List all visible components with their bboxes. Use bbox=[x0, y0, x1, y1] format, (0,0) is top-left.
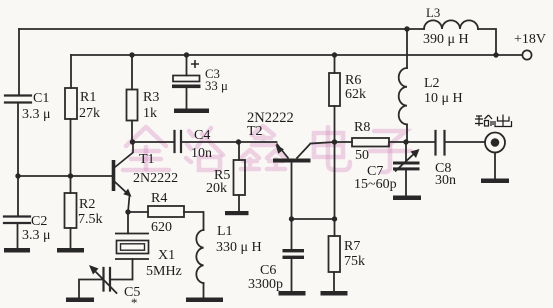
svg-text:330 μ H: 330 μ H bbox=[216, 240, 262, 255]
svg-text:390 μ H: 390 μ H bbox=[423, 32, 469, 47]
resistor R7 bbox=[329, 236, 341, 272]
node dot top rail / L2 bbox=[404, 26, 409, 31]
svg-text:C1: C1 bbox=[33, 91, 49, 106]
svg-text:R1: R1 bbox=[80, 90, 96, 105]
node dot R1/R2/base bbox=[68, 173, 73, 178]
svg-text:T2: T2 bbox=[247, 124, 263, 139]
capacitor C2 bbox=[4, 217, 30, 224]
ground (R2) bbox=[57, 248, 84, 253]
resistor R8 bbox=[352, 138, 389, 147]
resistor R1 bbox=[65, 88, 77, 119]
wire node A down to base node bbox=[334, 142, 336, 219]
wire R1 stems bbox=[70, 55, 73, 176]
node dot +18V / L3 bbox=[493, 52, 498, 57]
transistor T2 bbox=[273, 144, 311, 161]
wire connector ground stem bbox=[494, 153, 496, 179]
wire left column C1 branch bbox=[18, 29, 19, 176]
wire base node row bbox=[292, 218, 335, 220]
svg-text:R2: R2 bbox=[79, 197, 95, 212]
wire L3 right end down to +18V node bbox=[478, 29, 496, 55]
svg-text:1k: 1k bbox=[143, 106, 157, 121]
output connector bbox=[485, 133, 505, 153]
svg-text:30n: 30n bbox=[435, 173, 456, 188]
svg-text:62k: 62k bbox=[345, 87, 366, 102]
resistor R5 bbox=[234, 160, 246, 195]
svg-text:C4: C4 bbox=[194, 128, 210, 143]
wire R3 stems bbox=[131, 55, 133, 142]
node dot T2 base / C6 bbox=[289, 216, 294, 221]
node dot T1 emitter / R4 / X1 bbox=[125, 209, 130, 214]
svg-text:R3: R3 bbox=[143, 90, 159, 105]
resistor R4 bbox=[148, 206, 184, 217]
wire C6 stems bbox=[291, 219, 293, 291]
inductor L2 bbox=[399, 68, 407, 124]
wire R8 to output node bbox=[389, 141, 406, 143]
svg-text:620: 620 bbox=[151, 220, 172, 235]
node dot R7 top bbox=[332, 216, 337, 221]
svg-text:*: * bbox=[131, 296, 137, 308]
wire +18V supply rail bbox=[71, 54, 522, 56]
svg-text:L3: L3 bbox=[426, 6, 440, 20]
wire T2 emitter feed bbox=[239, 141, 277, 143]
ground (C3) bbox=[174, 109, 209, 114]
wire L1 bottom stem bbox=[203, 283, 205, 298]
wire T2 base stem bbox=[291, 162, 293, 220]
svg-text:R6: R6 bbox=[345, 73, 361, 88]
resistor R6 bbox=[329, 73, 340, 106]
svg-text:2N2222: 2N2222 bbox=[133, 171, 178, 186]
svg-text:3300p: 3300p bbox=[248, 277, 283, 292]
wire L2 hang from top rail bbox=[406, 29, 408, 142]
resistor R2 bbox=[65, 193, 77, 228]
wire base line to T1 bbox=[18, 175, 112, 177]
node dot C1/C2/base bbox=[15, 173, 20, 178]
wire R6 stems bbox=[334, 55, 336, 142]
svg-text:+18V: +18V bbox=[514, 32, 546, 47]
svg-text:20k: 20k bbox=[206, 181, 227, 196]
inductor L3 bbox=[424, 20, 478, 29]
wire output node to C8 bbox=[406, 141, 435, 143]
watermark 金洛鑫电子 (pink, hand-drawn strokes) bbox=[123, 126, 411, 172]
svg-text:10n: 10n bbox=[191, 146, 212, 161]
capacitor C5 (variable) bbox=[104, 268, 111, 291]
node dot C3 top bbox=[184, 52, 189, 57]
ground (R7) bbox=[321, 291, 348, 296]
svg-text:3.3 μ: 3.3 μ bbox=[22, 107, 51, 122]
wire collector node to C4 bbox=[133, 141, 175, 143]
wire C8 to connector bbox=[445, 141, 485, 143]
ground (C2) bbox=[4, 248, 30, 253]
svg-text:75k: 75k bbox=[344, 254, 365, 269]
svg-text:C6: C6 bbox=[260, 263, 276, 278]
wire C3 stems bbox=[186, 55, 188, 109]
svg-text:3.3 μ: 3.3 μ bbox=[22, 228, 51, 243]
capacitor C1 bbox=[5, 96, 31, 103]
capacitor C6 bbox=[283, 249, 305, 252]
wire T2 collector to R8 bbox=[311, 142, 353, 144]
label 输出 (output, hand-drawn glyphs) bbox=[475, 115, 512, 127]
node dot C4/R5/T2 emitter bbox=[236, 139, 241, 144]
wire C7 stems bbox=[405, 142, 407, 196]
ground (C6) bbox=[279, 291, 306, 296]
svg-text:5MHz: 5MHz bbox=[146, 264, 182, 279]
svg-text:L2: L2 bbox=[424, 76, 440, 91]
resistor R3 bbox=[127, 90, 138, 121]
node dot output (L2/R8/C7/C8) bbox=[403, 139, 408, 144]
wire R5 stems bbox=[238, 142, 240, 211]
svg-text:27k: 27k bbox=[79, 106, 100, 121]
ground (L1) bbox=[186, 298, 223, 303]
wire top rail from C1 top corner to L3 bbox=[19, 28, 424, 30]
wire R2 stems bbox=[70, 176, 72, 248]
wire C2 branch down bbox=[17, 176, 20, 248]
svg-text:L1: L1 bbox=[217, 224, 233, 239]
svg-text:R4: R4 bbox=[151, 191, 167, 206]
svg-text:33 μ: 33 μ bbox=[205, 79, 228, 93]
node dot R3 top bbox=[129, 52, 134, 57]
svg-text:X1: X1 bbox=[158, 248, 175, 263]
terminal +18V bbox=[522, 50, 531, 59]
wire R4 stems bbox=[128, 212, 204, 230]
svg-text:R7: R7 bbox=[344, 239, 360, 254]
capacitor C7 (trimmer) bbox=[393, 162, 420, 165]
svg-text:7.5k: 7.5k bbox=[78, 212, 103, 227]
capacitor C5 arrowhead bbox=[89, 265, 99, 275]
svg-text:T1: T1 bbox=[139, 152, 155, 167]
node dot R6 top bbox=[332, 52, 337, 57]
ground (C7) bbox=[393, 196, 421, 201]
capacitor C3 (electrolytic) bbox=[172, 60, 201, 88]
capacitor C4 bbox=[175, 131, 182, 152]
node dot A (R6/R8/collector) bbox=[332, 139, 337, 144]
ground (output connector) bbox=[481, 179, 509, 184]
ground (C5) bbox=[66, 298, 94, 303]
transistor T1 bbox=[114, 142, 134, 212]
capacitor C8 bbox=[436, 131, 445, 155]
svg-text:C2: C2 bbox=[31, 214, 47, 229]
inductor L1 bbox=[196, 230, 203, 283]
svg-text:50: 50 bbox=[355, 148, 369, 163]
ground (R5) bbox=[225, 211, 249, 215]
node dot T1 collector bbox=[130, 139, 135, 144]
svg-text:15~60p: 15~60p bbox=[354, 177, 397, 192]
wire R7 stems bbox=[333, 219, 336, 291]
wire C5 left to ground bbox=[79, 280, 104, 298]
wire C4 to R5/T2 node bbox=[181, 141, 239, 143]
crystal X1 bbox=[115, 234, 149, 260]
svg-text:R8: R8 bbox=[354, 120, 370, 135]
svg-text:10 μ H: 10 μ H bbox=[424, 91, 463, 106]
wire X1 stems bbox=[110, 212, 133, 280]
